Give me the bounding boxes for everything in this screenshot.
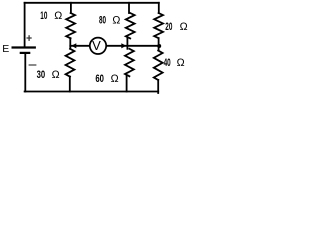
svg-text:80: 80: [99, 14, 106, 26]
svg-text:E: E: [2, 43, 9, 55]
svg-text:V: V: [92, 38, 101, 53]
svg-text:10: 10: [40, 9, 47, 21]
svg-text:Ω: Ω: [52, 69, 60, 81]
svg-text:Ω: Ω: [180, 21, 188, 33]
svg-text:Ω: Ω: [177, 57, 185, 69]
svg-text:20: 20: [165, 20, 172, 32]
svg-text:Ω: Ω: [111, 73, 119, 85]
svg-text:40: 40: [164, 56, 171, 68]
svg-text:Ω: Ω: [54, 10, 62, 22]
svg-text:Ω: Ω: [112, 14, 120, 26]
svg-text:60: 60: [95, 73, 104, 86]
svg-text:30: 30: [37, 69, 46, 82]
